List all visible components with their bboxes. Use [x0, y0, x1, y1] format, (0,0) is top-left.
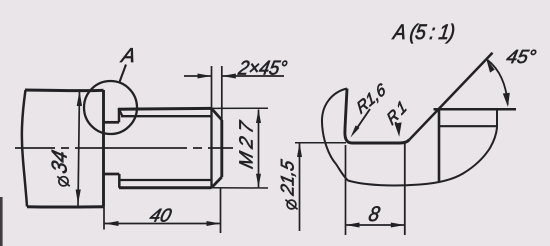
R1 text [386, 100, 407, 125]
45 slope line [410, 53, 493, 140]
arc arrow bottom [503, 93, 510, 107]
break outline blob [322, 89, 497, 186]
45 angle arc [488, 60, 508, 105]
phi34 text [57, 176, 70, 186]
title [391, 24, 455, 44]
arrow right-pointing [198, 74, 212, 79]
detail circle A [84, 81, 137, 134]
phi34 arrow up [77, 91, 82, 107]
R1 leader [396, 122, 398, 129]
2x45 extension right [221, 66, 223, 120]
groove top line [104, 121, 120, 124]
chamfer top diagonal [212, 108, 222, 120]
R1,6 leader [356, 109, 370, 130]
thread start vertical (top half) [118, 109, 121, 123]
thread major top line [118, 107, 212, 111]
2x45 dim line right [222, 75, 284, 77]
40 text [149, 209, 173, 222]
thread minor bottom line [120, 179, 212, 181]
thread start vertical detail [438, 109, 441, 181]
thread start vertical (bottom half) [118, 174, 121, 188]
M27 arrow down [256, 174, 261, 188]
M27 extension bottom [212, 187, 269, 189]
phi21,5 extension line [295, 142, 346, 144]
arrow left-pointing [222, 74, 236, 79]
scan artifact bar at left edge [0, 197, 3, 246]
2x45 text [237, 61, 287, 75]
R1,6 text [356, 82, 387, 116]
thread major bottom line [119, 186, 212, 189]
axis centerline [15, 147, 233, 149]
leader line to A [120, 65, 127, 83]
phi21,5 arrow up [297, 143, 302, 157]
8 text [368, 206, 381, 221]
shaft top edge [25, 89, 104, 93]
8 extension right [404, 144, 406, 236]
right end face [220, 120, 223, 177]
arc arrow top [486, 58, 495, 73]
phi34 dimension line [78, 90, 80, 207]
2x45 extension left [211, 66, 213, 108]
outline vertical at right [496, 109, 498, 128]
8 extension left [345, 145, 347, 235]
8 dimension line [346, 224, 405, 226]
R1 arrowhead [395, 122, 402, 136]
phi21,5 text [285, 200, 297, 210]
thread minor top line [121, 115, 212, 117]
phi34 arrow down [76, 190, 81, 205]
M27 extension top [212, 107, 269, 109]
R1,6 arrowhead [351, 125, 360, 137]
label A [120, 48, 136, 62]
shoulder extension down [103, 207, 105, 230]
M27 arrow up [256, 109, 261, 123]
groove bottom detail [352, 140, 410, 144]
40 arrow left [105, 221, 119, 226]
shoulder edge [102, 90, 105, 207]
shaft break line left [22, 90, 27, 207]
M27 text [239, 120, 252, 169]
phi21,5 dimension line [299, 143, 301, 231]
40 dimension line [105, 223, 221, 225]
M27 dimension line [258, 110, 260, 188]
2x45 dim line left [184, 75, 212, 77]
thread start mini chamfer [119, 109, 123, 116]
shaft bottom edge [27, 205, 104, 208]
40 extension right [220, 188, 222, 233]
thread surface line [434, 108, 517, 111]
8 arrow right [391, 223, 405, 228]
45deg text [506, 50, 537, 64]
40 arrow right [207, 221, 221, 226]
8 arrow left [346, 223, 360, 228]
chamfer bottom diagonal [212, 177, 222, 188]
groove bottom line [104, 173, 120, 176]
shoulder face detail [345, 89, 352, 144]
thread minor line detail [439, 125, 497, 127]
chamfer edge vertical [210, 108, 212, 187]
